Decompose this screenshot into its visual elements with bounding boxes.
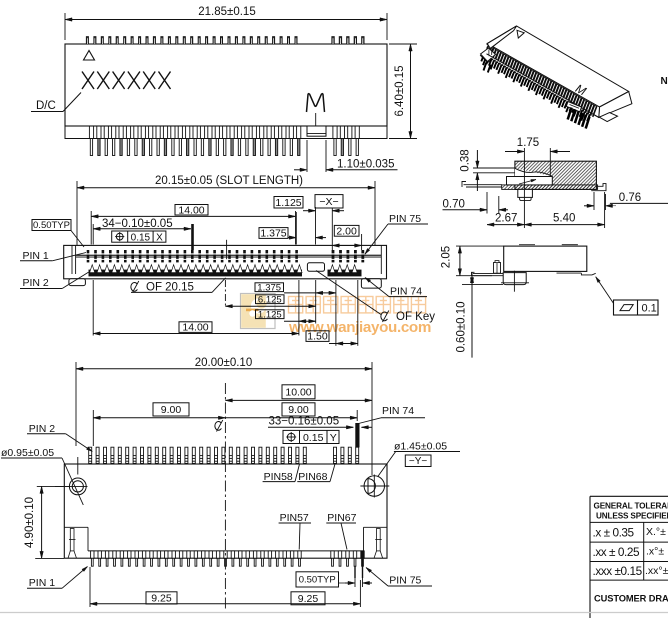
svg-text:−Y−: −Y− [409,456,428,467]
svg-text:21.85±0.15: 21.85±0.15 [198,6,255,18]
watermark logo box [241,294,276,329]
bottom view centerline [224,383,226,610]
svg-text:9.25: 9.25 [298,593,319,605]
bottom view left foot inner detail [70,529,74,551]
isometric view left foot cover [481,48,496,62]
bottom view right hole [364,476,384,496]
isometric view pin field band [484,45,597,117]
side view right foot [557,272,582,274]
bottom view bottom pin row long run [91,551,302,566]
svg-text:0.50TYP: 0.50TYP [299,575,336,586]
svg-text:0.15: 0.15 [303,432,324,444]
svg-text:2.00: 2.00 [336,225,357,237]
svg-text:6.40±0.15: 6.40±0.15 [394,65,406,116]
isometric view connector body faces [487,26,632,117]
svg-text:20.15±0.05 (SLOT LENGTH): 20.15±0.05 (SLOT LENGTH) [155,175,303,187]
flatness feature frame [614,300,659,315]
svg-text:N: N [661,76,668,87]
datum -X- label [315,195,343,208]
svg-text:0.76: 0.76 [619,192,641,204]
slot centerline tick front view [226,240,228,259]
dimension 14.00 lower [179,322,212,333]
svg-text:1.375: 1.375 [260,228,286,240]
top view date code XXXXXX [82,72,171,90]
dimension 6.125 [256,295,285,304]
top view bottom pins long run [89,126,300,156]
side view body [504,246,587,271]
flatness callout leader [596,277,616,306]
svg-text:4.90±0.10: 4.90±0.10 [24,497,36,548]
svg-text:0.60±0.10: 0.60±0.10 [456,301,468,352]
svg-text:1.125: 1.125 [275,197,301,209]
dimension 9.25 right [291,592,325,605]
svg-text:9.00: 9.00 [161,404,182,416]
svg-text:CUSTOMER DRAWING: CUSTOMER DRAWING [594,594,668,604]
isometric view left end legs [484,63,491,73]
svg-text:PIN 75: PIN 75 [389,575,421,587]
front view contact stripe highlights [87,253,299,255]
svg-text:2.67: 2.67 [495,213,517,225]
svg-text:OF Key: OF Key [396,311,435,323]
tolerance table frame [590,495,668,497]
bottom view top pin row key group [334,447,359,463]
svg-text:1.375: 1.375 [257,282,281,293]
svg-text:.xx ± 0.25: .xx ± 0.25 [593,545,640,559]
bottom view pin74 highlight bar [355,423,359,447]
front view key bump [307,263,324,272]
svg-text:ø1.45±0.05: ø1.45±0.05 [394,441,447,453]
front view left mounting foot [69,279,86,286]
dimension 6.40±0.15 [389,43,417,45]
section view hatched body [515,161,597,189]
datum -Y- label [405,455,431,467]
section view tongue slot [507,177,553,185]
isometric view triangle mark [517,30,524,38]
svg-text:PIN 2: PIN 2 [29,423,55,435]
isometric view left end face cover [487,26,516,48]
svg-text:5.40: 5.40 [553,213,575,225]
side view solder bump [503,273,526,285]
top view top pin stubs long run [86,37,297,44]
bottom view bottom step edges [64,526,88,528]
isometric view left foot [481,51,495,62]
watermark chinese characters [289,297,426,313]
isometric view key tab [566,102,581,112]
svg-text:PIN57: PIN57 [280,512,309,524]
svg-text:−X−: −X− [319,196,338,208]
top view pin1 triangle mark [84,51,95,61]
svg-text:UNLESS SPECIFIED: UNLESS SPECIFIED [596,512,668,521]
svg-text:Y: Y [330,432,337,444]
section view base strip [502,185,598,190]
front view left wall lines [71,245,73,274]
svg-text:PIN 1: PIN 1 [29,577,55,589]
isometric view pin legs row [481,55,590,122]
dimension 1.125 lower [256,310,285,319]
section view right foot [591,184,606,191]
dimension 0.50TYP front [32,220,71,231]
svg-text:.x ± 0.35: .x ± 0.35 [593,526,635,540]
front view right mounting foot [361,279,381,288]
bottom view right foot inner detail [377,529,381,551]
svg-text:PIN 75: PIN 75 [389,213,421,225]
isometric view front bottom edge [488,55,570,102]
svg-text:0.70: 0.70 [443,199,465,211]
svg-text:6.125: 6.125 [258,294,282,305]
front view contact rails [76,254,381,256]
svg-text:0.38: 0.38 [460,149,472,171]
dimension 1.375 top [259,228,288,239]
dimension 1.375 lower [255,283,284,292]
svg-text:PIN67: PIN67 [327,512,356,524]
top view bottom pins key group [333,126,359,156]
top view top pin stubs key group [332,37,364,44]
front view pin34 highlight [191,224,194,250]
dimension 2.00 [334,225,359,236]
svg-text:33−0.16±0.05: 33−0.16±0.05 [269,416,340,428]
svg-text:1.75: 1.75 [517,137,539,149]
front view body outline [64,245,387,278]
top view polarity mark M [307,94,325,112]
dimension 10.00 [282,385,315,399]
svg-text:34−0.10±0.05: 34−0.10±0.05 [102,218,173,230]
svg-text:20.00±0.10: 20.00±0.10 [195,357,252,369]
dimension 1.50 [306,331,329,342]
side view left lead [473,272,504,274]
label centerline of 20.15 [131,282,138,291]
svg-text:14.00: 14.00 [182,322,208,334]
dimension 9.00 left [153,403,189,416]
bottom view top pin row long run [89,447,307,463]
svg-text:10.00: 10.00 [285,386,311,398]
sheet border line [0,612,668,614]
svg-text:GENERAL TOLERANCE: GENERAL TOLERANCE [594,502,668,511]
dimension 14.00 top [175,205,208,216]
section view left lead [464,184,503,186]
bottom view left hole [69,478,86,495]
dimension 0.50TYP bottom [296,572,339,587]
front view lower contact band left [89,270,303,277]
svg-text:1.125: 1.125 [258,309,282,320]
svg-text:0.15: 0.15 [131,232,151,243]
front view lower contact band right [328,270,362,277]
svg-text:.xxx ±0.15: .xxx ±0.15 [593,564,643,578]
svg-text:X: X [156,232,163,243]
top view body [65,44,387,126]
svg-text:0.1: 0.1 [642,303,657,315]
position tolerance frame X [112,231,166,242]
dimension 9.25 left [146,592,177,604]
isometric view right group legs [568,108,590,129]
svg-text:14.00: 14.00 [178,204,204,216]
centerline symbol bottom view [215,421,222,430]
side view left clip [494,263,501,274]
svg-text:D/C: D/C [36,100,56,112]
dimension 1.125 top [274,197,303,209]
label centerline of key [381,312,388,321]
svg-text:OF 20.15: OF 20.15 [146,282,194,294]
front view right wall line [380,245,382,274]
svg-text:.xx°±: .xx°± [645,565,668,577]
svg-text:.x°±: .x°± [646,546,664,558]
svg-text:PIN 74: PIN 74 [390,286,422,298]
top view key slot tab [307,126,326,136]
bottom view body outline [64,464,387,558]
dimension 9.00 right [282,403,315,416]
svg-text:0.50TYP: 0.50TYP [33,220,70,231]
svg-text:9.25: 9.25 [151,593,172,605]
top view bottom strip [65,126,387,139]
section view solder bump [518,189,533,197]
svg-text:ø0.95±0.05: ø0.95±0.05 [1,447,54,459]
svg-text:2.05: 2.05 [441,246,453,268]
svg-text:X.°±: X.°± [646,526,666,538]
svg-text:9.00: 9.00 [288,404,309,416]
dimension 1.10±0.035 [306,140,308,172]
isometric view right end foot tab [599,113,617,122]
bottom view bottom pin row key group [331,551,364,566]
svg-text:PIN 74: PIN 74 [382,405,414,417]
svg-text:PIN 2: PIN 2 [23,277,49,289]
front view top contacts key group [332,250,365,262]
svg-text:1.50: 1.50 [307,331,328,343]
front view top contacts long run [87,250,298,262]
front view lower extension lines [92,280,94,336]
position tolerance frame Y [283,430,339,443]
svg-text:1.10±0.035: 1.10±0.035 [337,159,394,171]
